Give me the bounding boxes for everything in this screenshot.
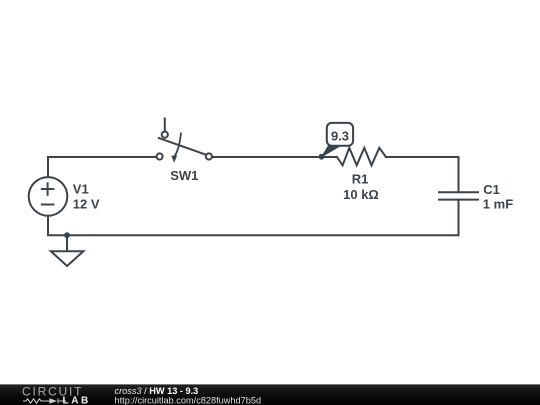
svg-text:V1: V1 <box>73 181 89 196</box>
svg-text:1 mF: 1 mF <box>483 197 513 212</box>
voltage source V1 <box>29 177 68 216</box>
junction dot <box>64 232 70 238</box>
svg-text:C1: C1 <box>483 182 500 197</box>
wire from R1 to top-right corner down to C1 <box>386 157 459 192</box>
logo circuit glyph: resistor zigzag and diode <box>23 399 66 404</box>
wire from C1 bottom plate down <box>458 200 460 236</box>
ground <box>51 235 84 266</box>
wire top-left from V1 to SW1 <box>48 157 157 178</box>
svg-text:R1: R1 <box>352 171 369 186</box>
resistor R1 <box>337 148 386 166</box>
wire bottom rail to V1 <box>48 216 459 235</box>
svg-text:10 kΩ: 10 kΩ <box>343 187 379 202</box>
svg-text:12 V: 12 V <box>73 197 100 212</box>
svg-text:SW1: SW1 <box>170 168 198 183</box>
wire from SW1 right terminal to R1 <box>212 156 337 158</box>
probe callout 9.3 on R1 node <box>319 123 353 160</box>
footer bar <box>0 384 540 405</box>
switch SW1 <box>157 118 212 163</box>
svg-text:LAB: LAB <box>63 396 91 405</box>
svg-text:cross3 / HW 13 - 9.3: cross3 / HW 13 - 9.3 <box>115 386 199 396</box>
svg-text:9.3: 9.3 <box>331 128 349 143</box>
svg-text:http://circuitlab.com/c828fuwh: http://circuitlab.com/c828fuwhd7b5d <box>115 396 262 405</box>
capacitor C1 <box>438 192 479 199</box>
